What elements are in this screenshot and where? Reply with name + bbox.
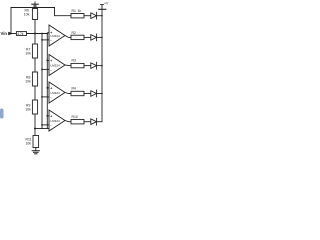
wire row 4 bbox=[84, 93, 91, 95]
op-amp U4 bbox=[42, 110, 71, 131]
svg-text:LM324: LM324 bbox=[51, 119, 61, 123]
svg-text:R3: R3 bbox=[72, 59, 76, 63]
power symbol +V (divider top) bbox=[32, 2, 38, 8]
svg-text:+: + bbox=[50, 31, 52, 35]
resistor R5 (Vin series) bbox=[16, 32, 26, 36]
bus A (Vin bus) bbox=[41, 34, 43, 129]
svg-text:10k: 10k bbox=[25, 79, 31, 83]
LED D3 bbox=[91, 62, 102, 69]
svg-text:R4: R4 bbox=[72, 87, 76, 91]
svg-text:LM324: LM324 bbox=[51, 91, 61, 95]
power symbol +V (LED rail) bbox=[99, 5, 106, 10]
wire row 1 bbox=[84, 15, 91, 17]
svg-text:R1: R1 bbox=[72, 9, 76, 13]
LED D5 bbox=[91, 118, 102, 125]
svg-text:10k: 10k bbox=[26, 142, 32, 146]
wire rail step down to row 1 bbox=[55, 8, 72, 16]
wire right rail bbox=[101, 10, 103, 122]
op-amp U3 bbox=[42, 82, 71, 103]
LED D4 bbox=[91, 90, 102, 97]
svg-text:1k: 1k bbox=[78, 9, 82, 13]
svg-text:+: + bbox=[50, 115, 52, 119]
svg-text:+: + bbox=[50, 87, 52, 91]
resistor R2 (row 2) bbox=[71, 35, 84, 39]
wire chain segment bbox=[34, 114, 36, 136]
wire chain segment R6 to Vin node bbox=[34, 20, 36, 45]
op-amp U2 bbox=[42, 55, 71, 76]
ground bbox=[32, 151, 39, 154]
wire chain segment bbox=[34, 58, 36, 72]
svg-text:LM324: LM324 bbox=[51, 64, 61, 68]
resistor R9 (divider) bbox=[32, 100, 37, 114]
resistor R4 (row 4) bbox=[71, 91, 84, 95]
svg-text:+: + bbox=[50, 59, 52, 63]
wire top rail bbox=[11, 7, 55, 9]
resistor R11 (divider bottom) bbox=[33, 136, 39, 148]
svg-text:10k: 10k bbox=[25, 107, 31, 111]
wire Vin to buses bbox=[27, 33, 48, 35]
wire to ground bbox=[35, 148, 37, 151]
resistor R10 (row 5) bbox=[71, 120, 84, 124]
svg-text:10k: 10k bbox=[24, 12, 30, 16]
resistor R7 (divider) bbox=[32, 44, 37, 58]
svg-text:R10: R10 bbox=[72, 115, 78, 119]
wire row 5 bbox=[84, 121, 91, 123]
svg-text:+V: +V bbox=[104, 2, 109, 6]
wire row 2 bbox=[84, 36, 91, 38]
wire left vertical from rail to Vin node bbox=[10, 8, 12, 34]
node junction dots bbox=[34, 15, 103, 130]
svg-text:10k: 10k bbox=[25, 51, 31, 55]
wire row 3 bbox=[84, 65, 91, 67]
svg-text:4.7k: 4.7k bbox=[17, 32, 23, 36]
resistor R8 (divider) bbox=[32, 72, 37, 86]
resistor R1 (row 1) bbox=[71, 14, 84, 18]
resistor R3 (row 3) bbox=[71, 63, 84, 67]
svg-text:Vin: Vin bbox=[1, 31, 8, 36]
op-amp U1 bbox=[42, 25, 71, 46]
wire Vin input bbox=[9, 33, 16, 35]
svg-text:R2: R2 bbox=[72, 31, 76, 35]
LED D1 bbox=[91, 12, 102, 19]
wire bottom tap bbox=[35, 128, 48, 130]
blue edge mark bbox=[0, 109, 4, 119]
LED D2 bbox=[91, 34, 102, 41]
resistor R6 (divider top) bbox=[32, 9, 37, 20]
wire into U1 top input bbox=[47, 32, 49, 35]
bus B (reference bus) bbox=[46, 34, 48, 129]
wire chain segment bbox=[34, 86, 36, 100]
